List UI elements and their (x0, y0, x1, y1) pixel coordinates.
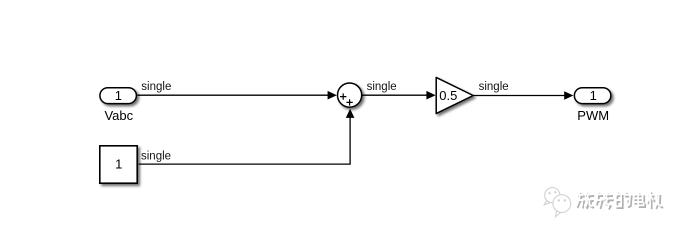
svg-text:single: single (141, 81, 171, 93)
svg-text:1: 1 (115, 157, 122, 172)
svg-text:single: single (479, 81, 509, 93)
svg-text:PWM: PWM (577, 108, 609, 123)
constant block 1 (100, 146, 137, 183)
watermark text 旋转的电机 (576, 191, 663, 210)
svg-text:1: 1 (115, 88, 122, 103)
svg-text:0.5: 0.5 (439, 88, 457, 103)
svg-text:1: 1 (590, 88, 597, 103)
svg-text:single: single (141, 151, 171, 163)
wire inport to sum (137, 91, 336, 100)
svg-text:Vabc: Vabc (104, 108, 133, 123)
outport PWM (574, 88, 611, 104)
gain block 0.5 (436, 77, 473, 113)
svg-text:single: single (367, 81, 397, 93)
sum block U1 (338, 83, 362, 107)
watermark logo bubbles (544, 188, 570, 217)
wire constant to sum (139, 109, 355, 164)
wire gain to outport (473, 91, 573, 100)
inport Vabc (100, 88, 136, 104)
wire sum to gain (362, 91, 436, 100)
